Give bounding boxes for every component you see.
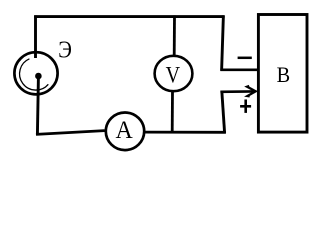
arrowhead on plus lead: [247, 86, 256, 96]
wire voltmeter branch lower: [171, 91, 174, 133]
ammeter A circle: [106, 113, 144, 151]
wire bottom rail right segment: [144, 131, 226, 134]
label A: [115, 117, 133, 145]
label plus: [240, 100, 251, 113]
svg-text:Э: Э: [58, 36, 72, 63]
svg-text:A: A: [115, 117, 133, 145]
cell inner thin arc: [20, 59, 49, 90]
wire right vertical upper (rail down to minus lead): [222, 15, 224, 70]
wire plus lead with arrow toward B: [220, 90, 253, 93]
wire top rail: [34, 15, 224, 18]
wire left vertical lower (dot to bottom rail): [37, 78, 38, 135]
wire minus lead into B: [220, 69, 258, 72]
svg-text:В: В: [277, 62, 291, 87]
cell (source) circle Э: [14, 52, 57, 94]
wire left vertical upper (rail to cell): [34, 15, 37, 58]
svg-text:V: V: [166, 62, 181, 88]
load box B: [258, 15, 307, 133]
wire bottom rail left segment: [36, 131, 105, 135]
cell center dot: [35, 73, 42, 80]
label В: [277, 62, 291, 87]
label minus: [238, 57, 252, 60]
wire right vertical lower (plus lead down to bottom rail): [222, 91, 225, 133]
label Э: [58, 36, 72, 63]
wire voltmeter branch upper: [173, 15, 176, 57]
label V: [166, 62, 181, 88]
voltmeter V circle: [155, 56, 193, 91]
